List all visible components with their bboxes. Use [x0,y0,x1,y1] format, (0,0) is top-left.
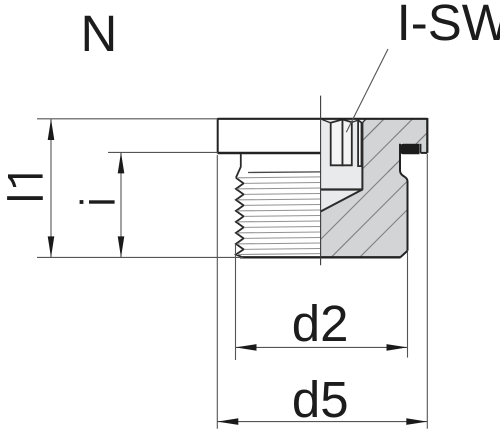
d5 dimension line [217,421,427,423]
i top extension [108,151,218,153]
bar 2 [343,119,352,165]
thread shoulder line [248,171,321,174]
l1 dimension line [50,119,52,257]
head top edge [218,118,428,120]
d5 arrows [217,418,238,425]
socket floor [321,188,363,190]
d5 left extension [216,155,218,429]
d2 left extension [235,244,237,360]
dimension thin lines [37,119,427,429]
section material (hatched gray body, right half) [321,119,428,257]
hex socket void (light gray) [321,119,365,211]
label l1 (rotated, drawn) [7,174,43,200]
body bottom edge [240,256,401,258]
body bottom chamfer right [400,251,407,257]
bar 1 [331,119,343,165]
ED seal (black) [400,144,419,155]
seal groove inner wall + flare to thread od [400,144,408,251]
i arrows [118,152,125,173]
socket bottom cone [321,190,363,212]
i dimension line [120,152,122,257]
thread relief neck [236,153,241,178]
text labels [81,8,118,59]
socket opening chamfer left [322,120,330,123]
lip underside right [421,152,428,154]
socket opening chamfer right [362,119,365,123]
centerline [320,96,322,266]
leader line I-SW [346,49,388,132]
bar 3 [358,120,361,166]
head underside (left half) [218,152,321,155]
thread root lines [244,183,321,250]
l1 arrows [48,119,55,140]
l1 top extension [37,118,218,120]
d2 dimension line [236,346,408,348]
lip inner wall [420,144,422,153]
d5 right extension [426,154,428,429]
d2 right extension [407,252,409,358]
hatch lines 45deg [303,0,500,314]
head right edge [426,118,428,153]
label i (rotated, drawn) [80,200,115,204]
socket gap top edge [352,120,358,122]
arrowheads [48,119,428,425]
thread zigzag profile [236,178,244,257]
socket side wall [361,122,363,190]
bottom extension [37,256,243,258]
head left edge [217,118,219,154]
thread crest lines [237,177,321,255]
d2 arrows [236,344,257,351]
